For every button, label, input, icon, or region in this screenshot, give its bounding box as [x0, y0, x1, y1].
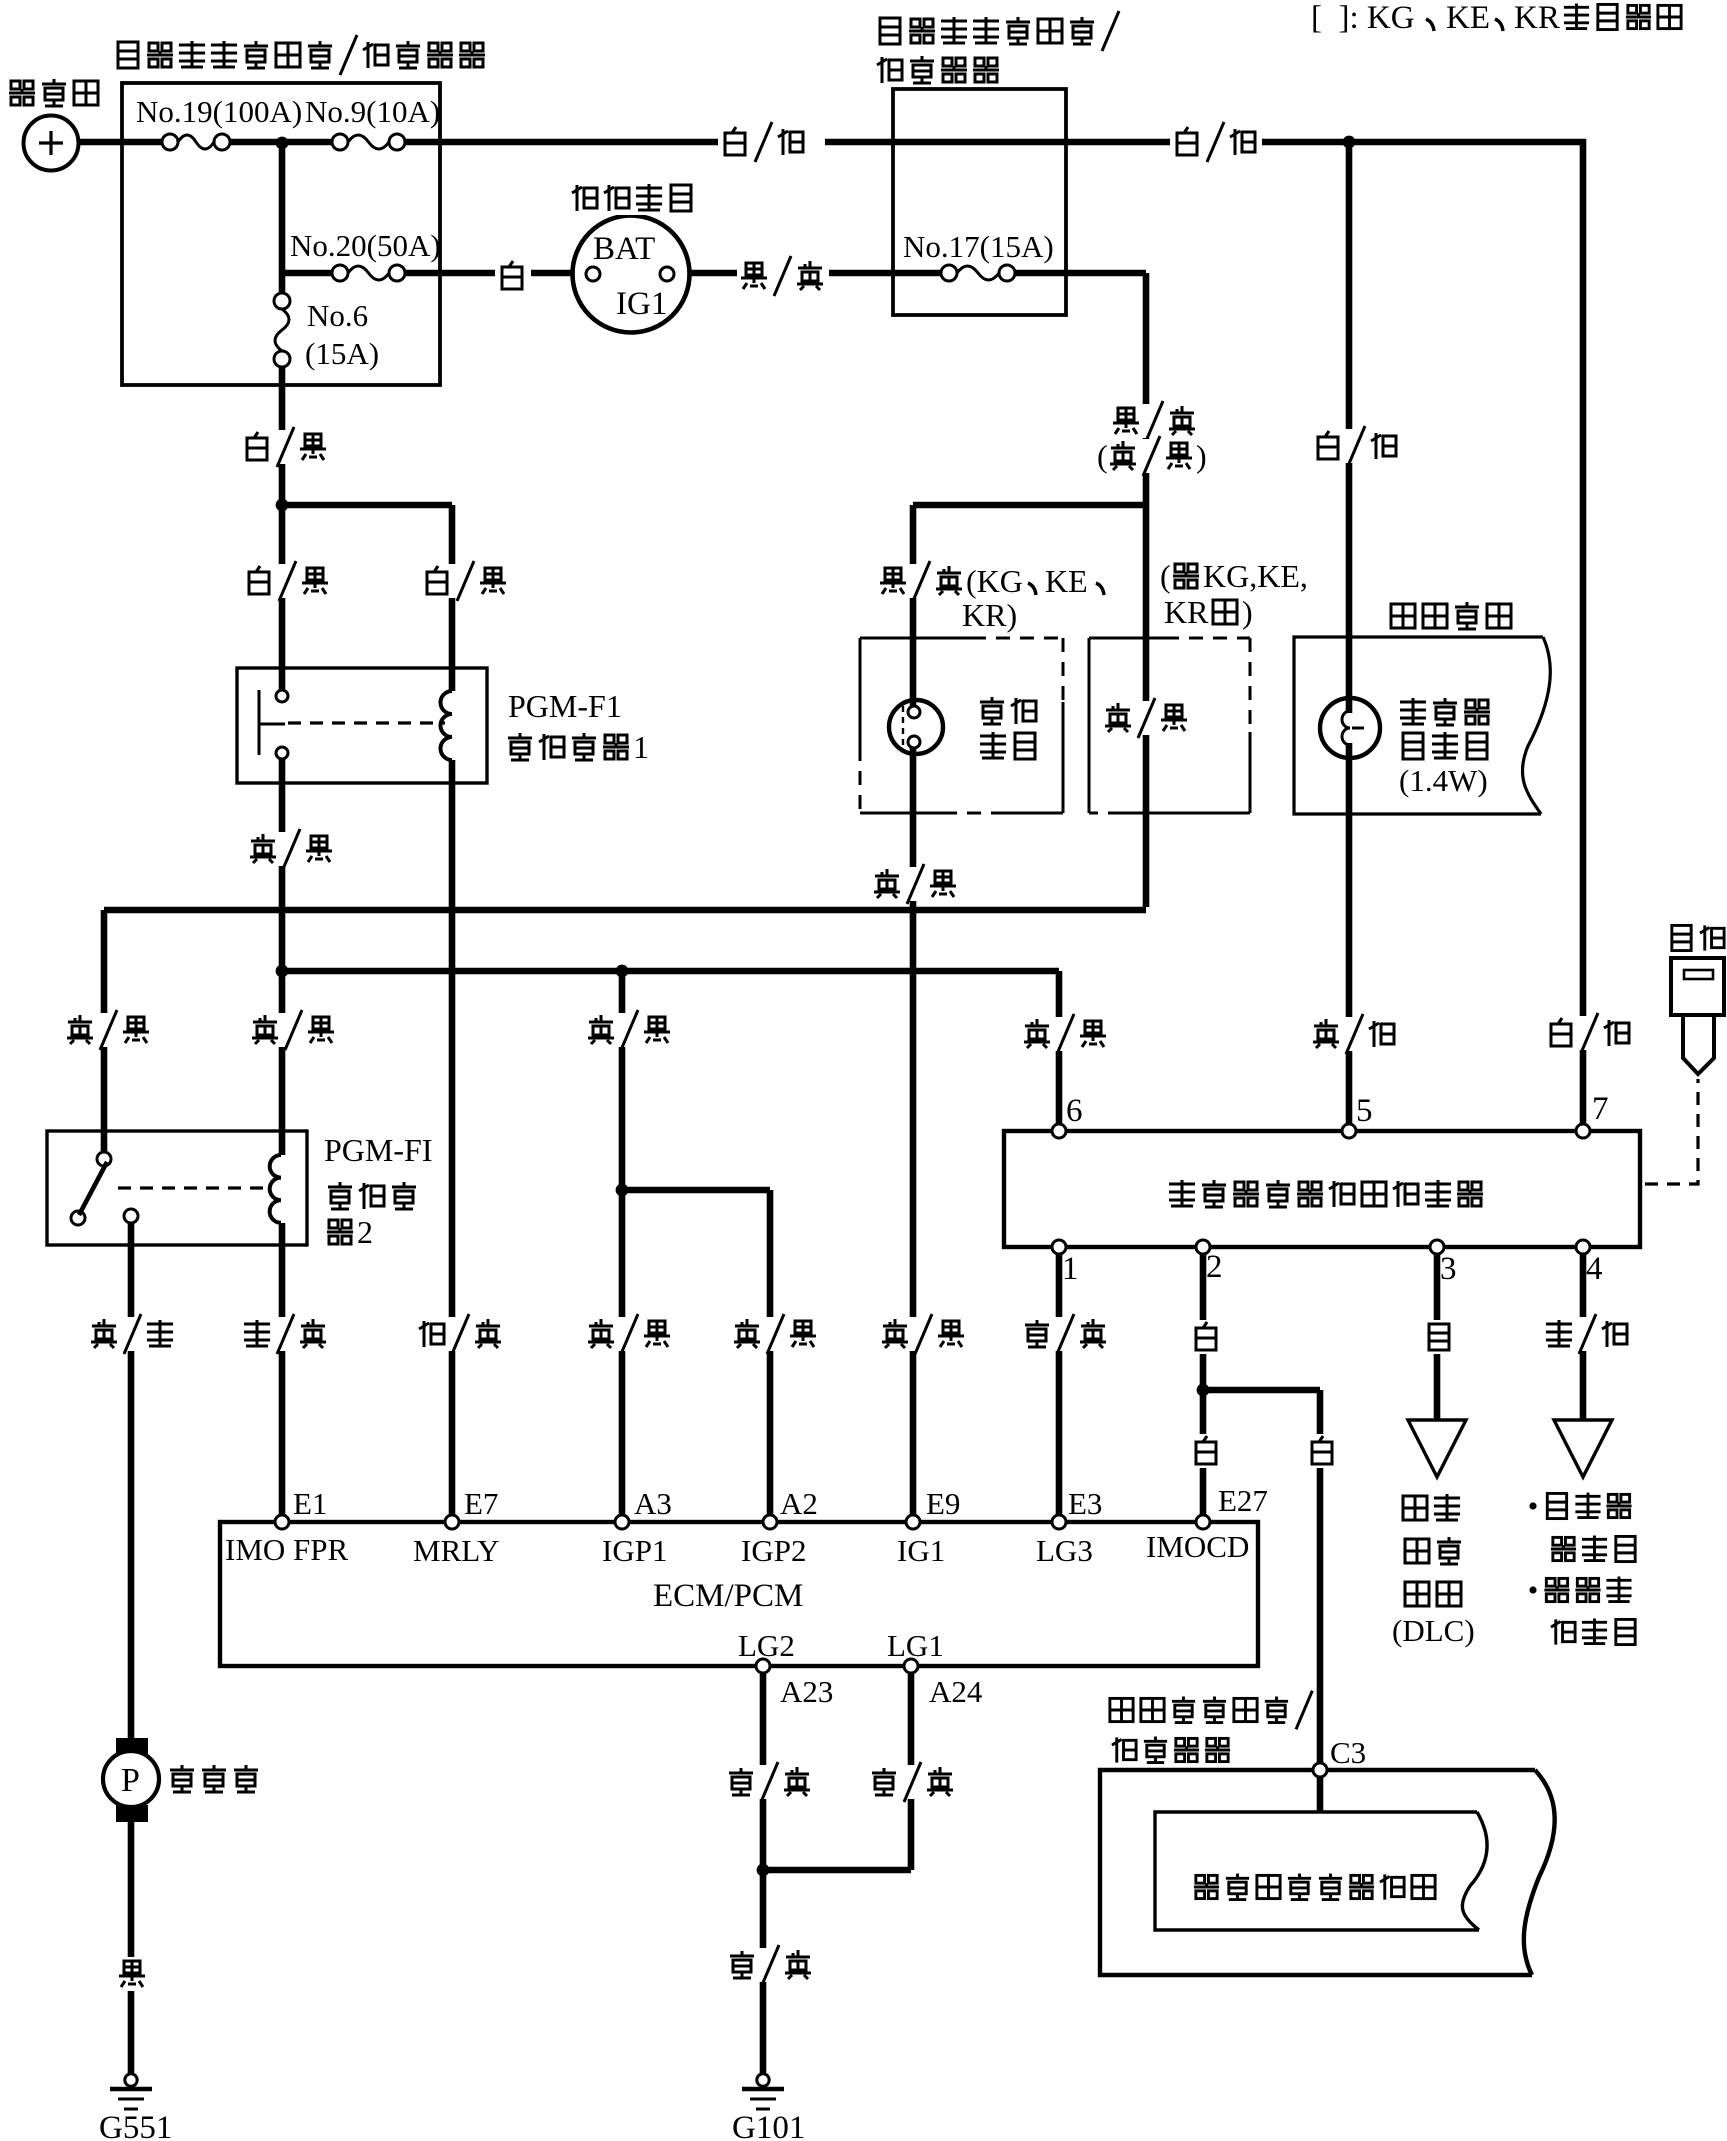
- svg-text:No.19(100A): No.19(100A): [136, 94, 302, 129]
- svg-text:KR): KR): [962, 597, 1017, 633]
- svg-text:A2: A2: [780, 1486, 818, 1521]
- svg-text:IG1: IG1: [616, 286, 667, 322]
- svg-text:ECM/PCM: ECM/PCM: [653, 1578, 803, 1614]
- svg-text:G551: G551: [99, 2110, 172, 2141]
- svg-text:No.9(10A): No.9(10A): [305, 94, 440, 129]
- svg-text:LG2: LG2: [738, 1628, 795, 1663]
- svg-text:3: 3: [1440, 1251, 1457, 1287]
- svg-text:No.20(50A): No.20(50A): [290, 228, 441, 263]
- svg-text:A23: A23: [780, 1674, 833, 1709]
- svg-text:): ): [1242, 594, 1253, 630]
- svg-text:PGM-FI: PGM-FI: [324, 1132, 432, 1168]
- svg-text:IMO FPR: IMO FPR: [225, 1532, 349, 1567]
- svg-text:No.6: No.6: [307, 298, 368, 333]
- svg-text:KR: KR: [1164, 594, 1209, 630]
- svg-text:(15A): (15A): [305, 336, 379, 371]
- svg-text:IMOCD: IMOCD: [1146, 1529, 1249, 1564]
- svg-text:PGM-F1: PGM-F1: [508, 688, 622, 724]
- svg-text:KR: KR: [1514, 0, 1560, 36]
- svg-text:): ): [1196, 438, 1207, 474]
- svg-text:7: 7: [1592, 1091, 1609, 1127]
- svg-text:G101: G101: [732, 2110, 805, 2141]
- svg-text:E9: E9: [926, 1486, 960, 1521]
- svg-text:E3: E3: [1068, 1486, 1102, 1521]
- svg-text:[ ]: KG: [ ]: KG: [1311, 0, 1415, 36]
- svg-text:No.17(15A): No.17(15A): [903, 229, 1054, 264]
- svg-text:E1: E1: [293, 1486, 327, 1521]
- svg-text:(1.4W): (1.4W): [1399, 763, 1488, 798]
- svg-text:E27: E27: [1218, 1483, 1268, 1518]
- svg-text:A24: A24: [929, 1674, 983, 1709]
- svg-text:1: 1: [633, 729, 649, 765]
- svg-text:2: 2: [357, 1214, 373, 1250]
- svg-text:MRLY: MRLY: [413, 1533, 499, 1568]
- svg-text:(DLC): (DLC): [1392, 1613, 1475, 1648]
- svg-text:2: 2: [1206, 1249, 1223, 1285]
- svg-text:IGP1: IGP1: [602, 1533, 667, 1568]
- svg-text:KG,KE,: KG,KE,: [1203, 558, 1308, 594]
- svg-text:IGP2: IGP2: [741, 1533, 806, 1568]
- svg-text:(KG: (KG: [966, 563, 1023, 599]
- svg-text:KE: KE: [1045, 563, 1088, 599]
- svg-text:(: (: [1160, 558, 1171, 594]
- svg-text:5: 5: [1356, 1093, 1373, 1129]
- svg-text:1: 1: [1062, 1251, 1079, 1287]
- svg-text:E7: E7: [464, 1486, 498, 1521]
- svg-text:6: 6: [1066, 1093, 1083, 1129]
- svg-text:LG1: LG1: [887, 1628, 944, 1663]
- svg-text:4: 4: [1586, 1251, 1603, 1287]
- svg-text:BAT: BAT: [593, 231, 655, 267]
- svg-text:P: P: [121, 1762, 140, 1799]
- svg-text:(: (: [1097, 438, 1108, 474]
- svg-text:IG1: IG1: [897, 1533, 945, 1568]
- svg-text:C3: C3: [1330, 1735, 1366, 1770]
- svg-text:KE: KE: [1446, 0, 1490, 36]
- svg-text:A3: A3: [634, 1486, 672, 1521]
- svg-text:LG3: LG3: [1036, 1533, 1093, 1568]
